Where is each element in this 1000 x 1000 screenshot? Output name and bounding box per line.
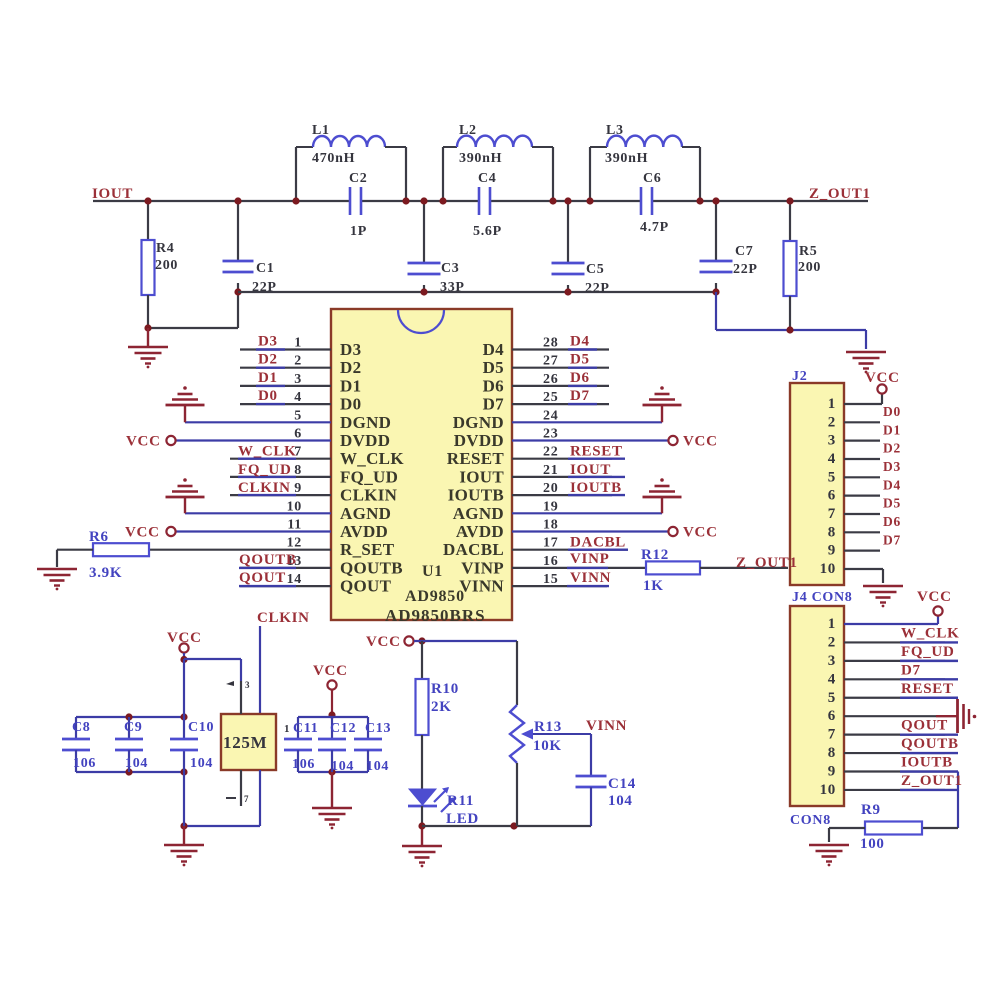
wire pin 27 D5 <box>512 367 609 369</box>
svg-text:D7: D7 <box>483 395 505 414</box>
svg-text:VINN: VINN <box>586 718 627 734</box>
svg-text:4: 4 <box>828 671 836 687</box>
resistor R10 <box>416 679 429 735</box>
svg-text:C3: C3 <box>441 261 460 276</box>
svg-text:106: 106 <box>73 756 96 771</box>
svg-text:D3: D3 <box>258 334 278 350</box>
svg-text:3: 3 <box>828 653 836 669</box>
ground filter right <box>846 351 886 354</box>
svg-text:1: 1 <box>828 396 836 412</box>
resistor R12 <box>646 561 700 574</box>
svg-text:25: 25 <box>543 390 558 405</box>
op-amp U1 AD9850BRS body <box>331 309 512 620</box>
crystal pin marks bottom <box>226 797 236 799</box>
wire J4 pin10 <box>844 789 945 791</box>
svg-text:VCC: VCC <box>313 663 348 679</box>
svg-text:CLKIN: CLKIN <box>340 486 398 505</box>
svg-text:8: 8 <box>828 524 836 540</box>
svg-text:D2: D2 <box>340 358 361 377</box>
wire pin 1 D3 <box>240 348 331 350</box>
svg-text:2: 2 <box>294 354 302 369</box>
svg-text:R6: R6 <box>89 529 109 545</box>
svg-text:10: 10 <box>820 561 836 577</box>
wire pin 22 RESET <box>512 458 612 460</box>
junction dots L3 <box>586 197 593 204</box>
svg-text:R10: R10 <box>431 681 459 697</box>
svg-text:200: 200 <box>155 258 178 273</box>
inductor L3 <box>589 147 591 201</box>
wire crystal bottom stub <box>240 770 242 806</box>
svg-text:IOUT: IOUT <box>459 467 504 486</box>
wire J4 pin2 <box>844 641 945 643</box>
wire R4 bottom link <box>148 327 238 329</box>
ground chassis J4 pin6 <box>956 699 959 733</box>
svg-text:W_CLK: W_CLK <box>340 449 404 468</box>
wire cap bank right bottom rail <box>298 771 368 773</box>
svg-text:16: 16 <box>543 554 558 569</box>
junction dot rail R4 <box>144 197 151 204</box>
svg-text:VCC: VCC <box>865 370 900 386</box>
ground LED <box>402 845 442 848</box>
svg-text:R4: R4 <box>156 241 175 256</box>
power VCC pin11 <box>166 527 175 536</box>
power VCC J4 <box>933 606 942 615</box>
inductor L2 <box>442 147 444 201</box>
svg-text:AD9850: AD9850 <box>405 588 465 605</box>
svg-text:26: 26 <box>543 372 558 387</box>
svg-text:C8: C8 <box>72 720 91 735</box>
wire VCC to pot <box>414 640 517 642</box>
wire J4 pin8 <box>844 752 945 754</box>
capacitor C8 <box>75 717 77 739</box>
svg-text:QOUT: QOUT <box>340 577 392 596</box>
svg-text:7: 7 <box>828 727 836 743</box>
svg-text:D3: D3 <box>340 340 361 359</box>
svg-text:VINN: VINN <box>459 577 504 596</box>
wire pin 12 R_SET <box>149 549 331 551</box>
ground below R4 <box>128 346 168 349</box>
svg-text:D0: D0 <box>340 395 361 414</box>
wire J2 pin8 <box>844 531 880 533</box>
svg-text:L1: L1 <box>312 123 330 138</box>
wire J4 pin4 <box>844 678 945 680</box>
svg-text:3: 3 <box>828 433 836 449</box>
connector J4 body <box>790 606 844 806</box>
svg-text:6: 6 <box>294 427 302 442</box>
wire pin 2 D2 <box>240 367 331 369</box>
svg-text:9: 9 <box>828 543 836 559</box>
svg-text:DACBL: DACBL <box>570 535 626 551</box>
capacitor C2 <box>349 187 352 215</box>
svg-text:J4 CON8: J4 CON8 <box>792 590 853 605</box>
wire R9 to ground <box>829 827 865 829</box>
wire VCC to right bank <box>331 690 333 717</box>
svg-text:DVDD: DVDD <box>454 431 504 450</box>
junction dots C7 <box>712 197 719 204</box>
svg-text:7: 7 <box>244 794 249 804</box>
svg-text:D6: D6 <box>883 514 901 529</box>
wire J2 pin4 <box>844 458 880 460</box>
ground AGND left <box>183 478 187 482</box>
svg-text:DACBL: DACBL <box>443 540 504 559</box>
svg-text:4.7P: 4.7P <box>640 220 669 235</box>
svg-text:D4: D4 <box>883 477 901 492</box>
svg-text:C12: C12 <box>330 721 356 736</box>
wire R12 to Z_OUT1 <box>700 567 788 569</box>
capacitor C12 <box>331 717 333 739</box>
ground DGND left <box>183 386 187 390</box>
svg-text:1: 1 <box>294 336 302 351</box>
wire J2 pin10 GND <box>844 568 883 570</box>
svg-text:21: 21 <box>543 463 558 478</box>
capacitor C5 <box>567 201 569 263</box>
svg-text:1: 1 <box>828 616 836 632</box>
wire J4 pin9 <box>844 770 958 772</box>
svg-text:FQ_UD: FQ_UD <box>340 467 398 486</box>
svg-text:D0: D0 <box>883 404 901 419</box>
svg-text:R5: R5 <box>799 244 818 259</box>
svg-text:5.6P: 5.6P <box>473 224 502 239</box>
svg-text:2: 2 <box>828 414 836 430</box>
wire J2 pin7 <box>844 513 880 515</box>
wire pin 17 DACBL <box>512 549 628 551</box>
svg-text:Z_OUT1: Z_OUT1 <box>901 773 963 789</box>
svg-text:4: 4 <box>294 390 302 405</box>
wire R13 wiper to C14 <box>590 734 592 776</box>
power VCC pin6 <box>166 436 175 445</box>
wire J4 pin3 <box>844 660 945 662</box>
capacitor C14 <box>576 775 607 778</box>
svg-text:470nH: 470nH <box>312 151 355 166</box>
wire pin 20 IOUTB <box>512 494 612 496</box>
svg-text:20: 20 <box>543 481 558 496</box>
svg-text:3: 3 <box>245 680 250 690</box>
wire pin 4 D0 <box>240 403 331 405</box>
svg-text:8: 8 <box>294 463 302 478</box>
svg-text:D2: D2 <box>258 352 278 368</box>
svg-text:IOUTB: IOUTB <box>570 480 622 496</box>
svg-text:VCC: VCC <box>917 589 952 605</box>
wire pin 8 FQ_UD <box>230 476 331 478</box>
svg-text:AGND: AGND <box>453 504 504 523</box>
svg-text:Z_OUT1: Z_OUT1 <box>809 186 871 202</box>
svg-text:125M: 125M <box>223 733 267 752</box>
svg-text:1: 1 <box>284 723 290 735</box>
svg-text:C1: C1 <box>256 261 275 276</box>
svg-text:VCC: VCC <box>126 434 161 450</box>
wire cap bank right top rail <box>298 716 368 718</box>
wire pin 24 DGND <box>512 421 662 423</box>
wire crystal ground link <box>184 825 260 827</box>
svg-text:22: 22 <box>543 445 558 460</box>
svg-text:D4: D4 <box>570 334 590 350</box>
junction dot rail C1 <box>234 197 241 204</box>
resistor R6 <box>93 543 149 556</box>
wire R10 to LED <box>421 735 423 789</box>
svg-text:RESET: RESET <box>901 681 954 697</box>
wire pin 10 AGND <box>185 512 331 514</box>
svg-text:QOUTB: QOUTB <box>239 552 297 568</box>
ground R6 <box>37 568 77 571</box>
svg-text:10: 10 <box>820 782 836 798</box>
junction dot C1 bottom <box>234 288 241 295</box>
svg-text:104: 104 <box>125 756 148 771</box>
connector J2 body <box>790 383 844 585</box>
svg-text:106: 106 <box>292 757 315 772</box>
svg-text:14: 14 <box>287 572 302 587</box>
svg-text:C2: C2 <box>349 171 368 186</box>
svg-text:C14: C14 <box>608 776 636 792</box>
svg-text:D7: D7 <box>901 662 921 678</box>
ground cap bank right <box>312 807 352 810</box>
svg-text:R9: R9 <box>861 802 881 818</box>
svg-text:100: 100 <box>860 836 885 852</box>
svg-text:1P: 1P <box>350 224 367 239</box>
svg-text:27: 27 <box>543 354 558 369</box>
svg-text:104: 104 <box>190 756 213 771</box>
svg-text:W_CLK: W_CLK <box>901 625 960 641</box>
wire VCC to crystal <box>183 653 185 659</box>
svg-text:6: 6 <box>828 708 836 724</box>
svg-text:19: 19 <box>543 499 558 514</box>
svg-text:R11: R11 <box>447 793 474 809</box>
svg-text:D5: D5 <box>570 352 590 368</box>
wire J2 pin5 <box>844 476 880 478</box>
svg-text:2K: 2K <box>431 699 452 715</box>
svg-text:CON8: CON8 <box>790 813 831 828</box>
diode LED R11 <box>409 789 436 805</box>
wire pin 28 D4 <box>512 348 609 350</box>
ground cap bank left <box>164 844 204 847</box>
svg-text:QOUT: QOUT <box>901 718 948 734</box>
svg-text:24: 24 <box>543 408 558 423</box>
svg-text:L2: L2 <box>459 123 477 138</box>
svg-text:1K: 1K <box>643 578 664 594</box>
svg-text:D7: D7 <box>570 388 590 404</box>
wire filter bottom rail <box>238 291 716 293</box>
svg-text:DGND: DGND <box>453 413 504 432</box>
svg-text:C13: C13 <box>365 721 391 736</box>
svg-text:W_CLK: W_CLK <box>238 444 297 460</box>
svg-text:VINP: VINP <box>570 551 609 567</box>
svg-text:CLKIN: CLKIN <box>238 480 291 496</box>
svg-text:D6: D6 <box>483 376 504 395</box>
wire J2 pin3 <box>844 440 880 442</box>
svg-text:11: 11 <box>287 518 302 533</box>
svg-text:104: 104 <box>331 759 354 774</box>
svg-text:12: 12 <box>287 536 302 551</box>
svg-text:4: 4 <box>828 451 836 467</box>
wire bottom rail to ground <box>715 292 717 330</box>
svg-text:L3: L3 <box>606 123 624 138</box>
svg-text:D2: D2 <box>883 441 901 456</box>
wire pin 21 IOUT <box>512 476 612 478</box>
svg-text:RESET: RESET <box>570 444 623 460</box>
svg-text:VCC: VCC <box>683 434 718 450</box>
capacitor C11 <box>297 717 299 739</box>
svg-text:390nH: 390nH <box>605 151 648 166</box>
svg-text:QOUT: QOUT <box>239 570 286 586</box>
junction dots L2 <box>439 197 446 204</box>
U1 notch <box>398 310 444 333</box>
svg-text:AVDD: AVDD <box>340 522 388 541</box>
potentiometer R13 <box>510 705 524 763</box>
wire pin 6 DVDD <box>176 439 331 441</box>
ground R9 <box>809 844 849 847</box>
wire LED to rail <box>421 806 423 826</box>
wire pin 25 D7 <box>512 403 609 405</box>
svg-text:C9: C9 <box>124 720 143 735</box>
wire VCC vertical left bank <box>183 659 185 739</box>
svg-text:28: 28 <box>543 336 558 351</box>
svg-text:D1: D1 <box>258 370 278 386</box>
svg-text:R13: R13 <box>534 719 562 735</box>
svg-text:17: 17 <box>543 536 558 551</box>
junction dots C3 <box>420 197 427 204</box>
resistor R4 <box>147 201 149 240</box>
svg-text:5: 5 <box>828 469 836 485</box>
svg-text:D7: D7 <box>883 532 901 547</box>
svg-text:DGND: DGND <box>340 413 391 432</box>
svg-text:RESET: RESET <box>447 449 505 468</box>
ground DGND right <box>660 386 664 390</box>
wire pin 13 QOUTB <box>240 567 331 569</box>
capacitor C1 <box>237 201 239 261</box>
wire pin 26 D6 <box>512 385 609 387</box>
svg-text:AVDD: AVDD <box>456 522 504 541</box>
svg-text:AGND: AGND <box>340 504 391 523</box>
wire pin 3 D1 <box>240 385 331 387</box>
svg-text:7: 7 <box>828 506 836 522</box>
svg-text:FQ_UD: FQ_UD <box>901 644 955 660</box>
svg-text:5: 5 <box>294 408 302 423</box>
ground AGND right <box>660 478 664 482</box>
wire J2 pin9 <box>844 550 880 552</box>
wire J2 pin1 VCC <box>844 403 882 405</box>
capacitor C10 <box>170 738 198 741</box>
svg-text:FQ_UD: FQ_UD <box>238 462 292 478</box>
svg-text:IOUT: IOUT <box>570 462 611 478</box>
svg-text:C11: C11 <box>293 721 318 736</box>
wire C14 to rail <box>590 787 592 826</box>
wire J4 pin7 <box>844 734 945 736</box>
svg-text:IOUTB: IOUTB <box>901 755 953 771</box>
wire IOUT main rail segment <box>93 200 350 202</box>
svg-text:IOUT: IOUT <box>92 186 133 202</box>
wire J4 pin1 VCC <box>844 623 938 625</box>
svg-text:DVDD: DVDD <box>340 431 390 450</box>
wire CLKIN vertical <box>259 626 261 714</box>
capacitor C7 <box>715 201 717 261</box>
wire J4 pin5 <box>844 697 945 699</box>
svg-text:D6: D6 <box>570 370 590 386</box>
svg-text:C6: C6 <box>643 171 662 186</box>
svg-text:D1: D1 <box>340 376 361 395</box>
svg-text:Z_OUT1: Z_OUT1 <box>736 555 798 571</box>
svg-text:C7: C7 <box>735 244 754 259</box>
wire pin 16 VINP <box>512 567 646 569</box>
svg-text:23: 23 <box>543 427 558 442</box>
resistor R5 <box>789 201 791 241</box>
svg-text:8: 8 <box>828 745 836 761</box>
svg-text:D5: D5 <box>883 496 901 511</box>
svg-text:D0: D0 <box>258 388 278 404</box>
svg-text:10: 10 <box>287 499 302 514</box>
svg-text:J2: J2 <box>792 369 807 384</box>
wire pin 7 W_CLK <box>230 458 331 460</box>
junction dots C5 <box>564 197 571 204</box>
wire cap bank left bottom rail <box>76 771 184 773</box>
svg-text:AD9850BRS: AD9850BRS <box>385 606 486 625</box>
svg-text:22P: 22P <box>585 281 610 296</box>
svg-text:VINN: VINN <box>570 570 611 586</box>
capacitor C13 <box>367 717 369 739</box>
svg-text:C4: C4 <box>478 171 497 186</box>
wire pin 18 AVDD <box>512 530 668 532</box>
svg-text:D3: D3 <box>883 459 901 474</box>
wire crystal gnd pin <box>259 770 261 826</box>
wire bottom rail R13 <box>422 825 591 827</box>
svg-text:C10: C10 <box>188 720 214 735</box>
svg-text:3.9K: 3.9K <box>89 565 122 581</box>
svg-text:22P: 22P <box>733 262 758 277</box>
svg-text:VCC: VCC <box>366 634 401 650</box>
svg-text:D1: D1 <box>883 422 901 437</box>
svg-text:10K: 10K <box>533 738 562 754</box>
svg-text:6: 6 <box>828 488 836 504</box>
wire pin 14 QOUT <box>240 585 331 587</box>
power VCC pin23 <box>668 436 677 445</box>
svg-text:104: 104 <box>366 759 389 774</box>
inductor L1 <box>295 147 297 201</box>
svg-text:C5: C5 <box>586 262 605 277</box>
svg-text:QOUTB: QOUTB <box>901 736 959 752</box>
svg-text:VCC: VCC <box>683 525 718 541</box>
junction dots L1 <box>292 197 299 204</box>
wire pin 5 DGND <box>185 421 331 423</box>
svg-text:QOUTB: QOUTB <box>340 558 403 577</box>
wire J2 pin2 <box>844 421 880 423</box>
svg-text:U1: U1 <box>422 563 443 580</box>
svg-text:18: 18 <box>543 518 558 533</box>
capacitor C3 <box>423 201 425 263</box>
svg-text:D5: D5 <box>483 358 504 377</box>
svg-text:9: 9 <box>294 481 302 496</box>
crystal Y1 125M body <box>221 714 276 770</box>
svg-text:IOUTB: IOUTB <box>448 486 504 505</box>
crystal pin marks top <box>226 681 234 686</box>
capacitor C6 <box>640 187 643 215</box>
svg-text:CLKIN: CLKIN <box>257 610 310 626</box>
wire pin 15 VINN <box>512 585 607 587</box>
svg-text:2: 2 <box>828 634 836 650</box>
svg-text:104: 104 <box>608 793 633 809</box>
svg-text:33P: 33P <box>440 280 465 295</box>
power VCC J2 <box>877 384 886 393</box>
svg-text:LED: LED <box>446 811 479 827</box>
wire J4 pin6 chassis <box>844 715 936 717</box>
wire J2 pin6 <box>844 495 880 497</box>
wire VCC to R10 <box>421 641 423 679</box>
svg-text:R12: R12 <box>641 547 669 563</box>
svg-text:VINP: VINP <box>461 558 504 577</box>
capacitor C9 <box>128 717 130 739</box>
ground J2 pin10 <box>863 585 903 588</box>
svg-text:R_SET: R_SET <box>340 540 395 559</box>
power VCC pin18 <box>668 527 677 536</box>
wire pin 23 DVDD <box>512 439 668 441</box>
wire cap bank left top rail <box>76 716 184 718</box>
